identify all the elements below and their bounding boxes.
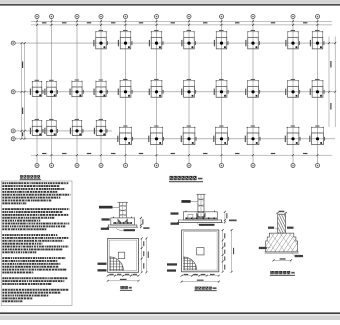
footing D8 (214, 30, 229, 49)
J-2 plan bottom dims (182, 275, 219, 277)
J-1 plan left labels (98, 263, 107, 265)
footing C9 (245, 79, 260, 97)
footing D4 (93, 30, 108, 49)
footing D10 (285, 30, 300, 49)
footing D7 (181, 30, 196, 49)
horizontal axis line D (16, 42, 336, 44)
left dimension lines (21, 43, 23, 139)
J-1 plan bottom dims (108, 275, 139, 277)
bottom dimension texts (42, 153, 46, 154)
J-2 section leader and note (197, 223, 204, 225)
horizontal axis line A (16, 138, 336, 140)
footing D5 (118, 30, 133, 49)
wall detail side labels (268, 227, 274, 229)
top dimension texts (42, 22, 46, 23)
J-1 section base slab (108, 225, 137, 227)
top margin band (0, 0, 340, 4)
main title 基础平面布置图 1:100 (170, 176, 173, 180)
sheet top border (0, 4, 340, 6)
top axis circles (35, 15, 39, 19)
footing B2 (44, 119, 58, 136)
footing D6 (149, 30, 164, 49)
J-2 section column label (181, 200, 190, 203)
wall detail top dim (276, 212, 287, 214)
J-2 plan center column square (197, 248, 204, 255)
footing A11 (309, 126, 325, 145)
J-2 plan left labels (167, 263, 177, 265)
right dimension texts (330, 61, 331, 68)
notes box (1, 181, 72, 306)
footing B3 (70, 119, 84, 136)
footing C4 (94, 80, 108, 97)
wall detail bottom dim (274, 259, 292, 261)
wall detail stepped footing (266, 233, 298, 252)
footing A5 (117, 126, 133, 145)
J-1 section leader and note (116, 228, 123, 230)
footing C1 (30, 80, 44, 97)
J-1 plan center column square (118, 252, 124, 258)
J-1 section column-base hatch (118, 218, 122, 222)
footing C11 (310, 79, 325, 97)
footing C8 (214, 79, 229, 97)
footing A6 (148, 126, 164, 145)
J-2 section footing (183, 212, 217, 220)
left dimension texts (22, 62, 23, 69)
sheet bottom border (0, 312, 340, 314)
bottom margin band (0, 315, 340, 320)
footing B1 (30, 119, 44, 136)
wall detail label (270, 271, 274, 274)
J-1 plan right dims (141, 238, 143, 272)
footing A8 (213, 126, 229, 145)
J-1 plan outer square (108, 238, 139, 272)
footing C7 (181, 79, 196, 97)
notes title 基础施工说明 (20, 175, 23, 178)
footing D9 (245, 30, 260, 49)
J-1 section left labels (102, 218, 110, 220)
horizontal axis line C (16, 91, 336, 93)
J-2 section column (197, 194, 199, 220)
footing A7 (181, 126, 197, 145)
footing D11 (310, 30, 325, 49)
footing C10 (285, 79, 300, 97)
J-2 section right dim (224, 212, 226, 223)
J-2 label (195, 287, 198, 290)
J-2 section left labels (171, 212, 179, 214)
horizontal axis line B (16, 130, 113, 132)
J-2 section base slab (178, 220, 221, 222)
top dimension lines (31, 20, 332, 22)
vertical grid lines axes 1-11 (36, 19, 38, 164)
J-2 plan outer square (182, 230, 219, 272)
footing A10 (285, 126, 301, 145)
footing C6 (149, 79, 164, 97)
left axis circles D C B A (11, 41, 15, 45)
footing C5 (118, 79, 133, 97)
right dimension lines (328, 37, 330, 128)
footing C2 (44, 80, 58, 97)
J-2 section column-base hatch (196, 212, 199, 217)
footing A9 (245, 126, 261, 145)
notes text lines (2, 182, 68, 184)
bottom axis circles (35, 164, 39, 168)
J-2 plan right dims (222, 230, 224, 272)
footing B4 (94, 119, 108, 136)
J-1 section footing (111, 218, 135, 225)
J-1 section column label (99, 206, 113, 209)
J-1 label (120, 286, 124, 289)
J-1 section right dim (140, 218, 142, 227)
bottom dimension line (31, 154, 332, 156)
J-1 section column (118, 202, 120, 218)
footing C3 (70, 80, 84, 97)
wall detail brick wall (278, 215, 286, 234)
